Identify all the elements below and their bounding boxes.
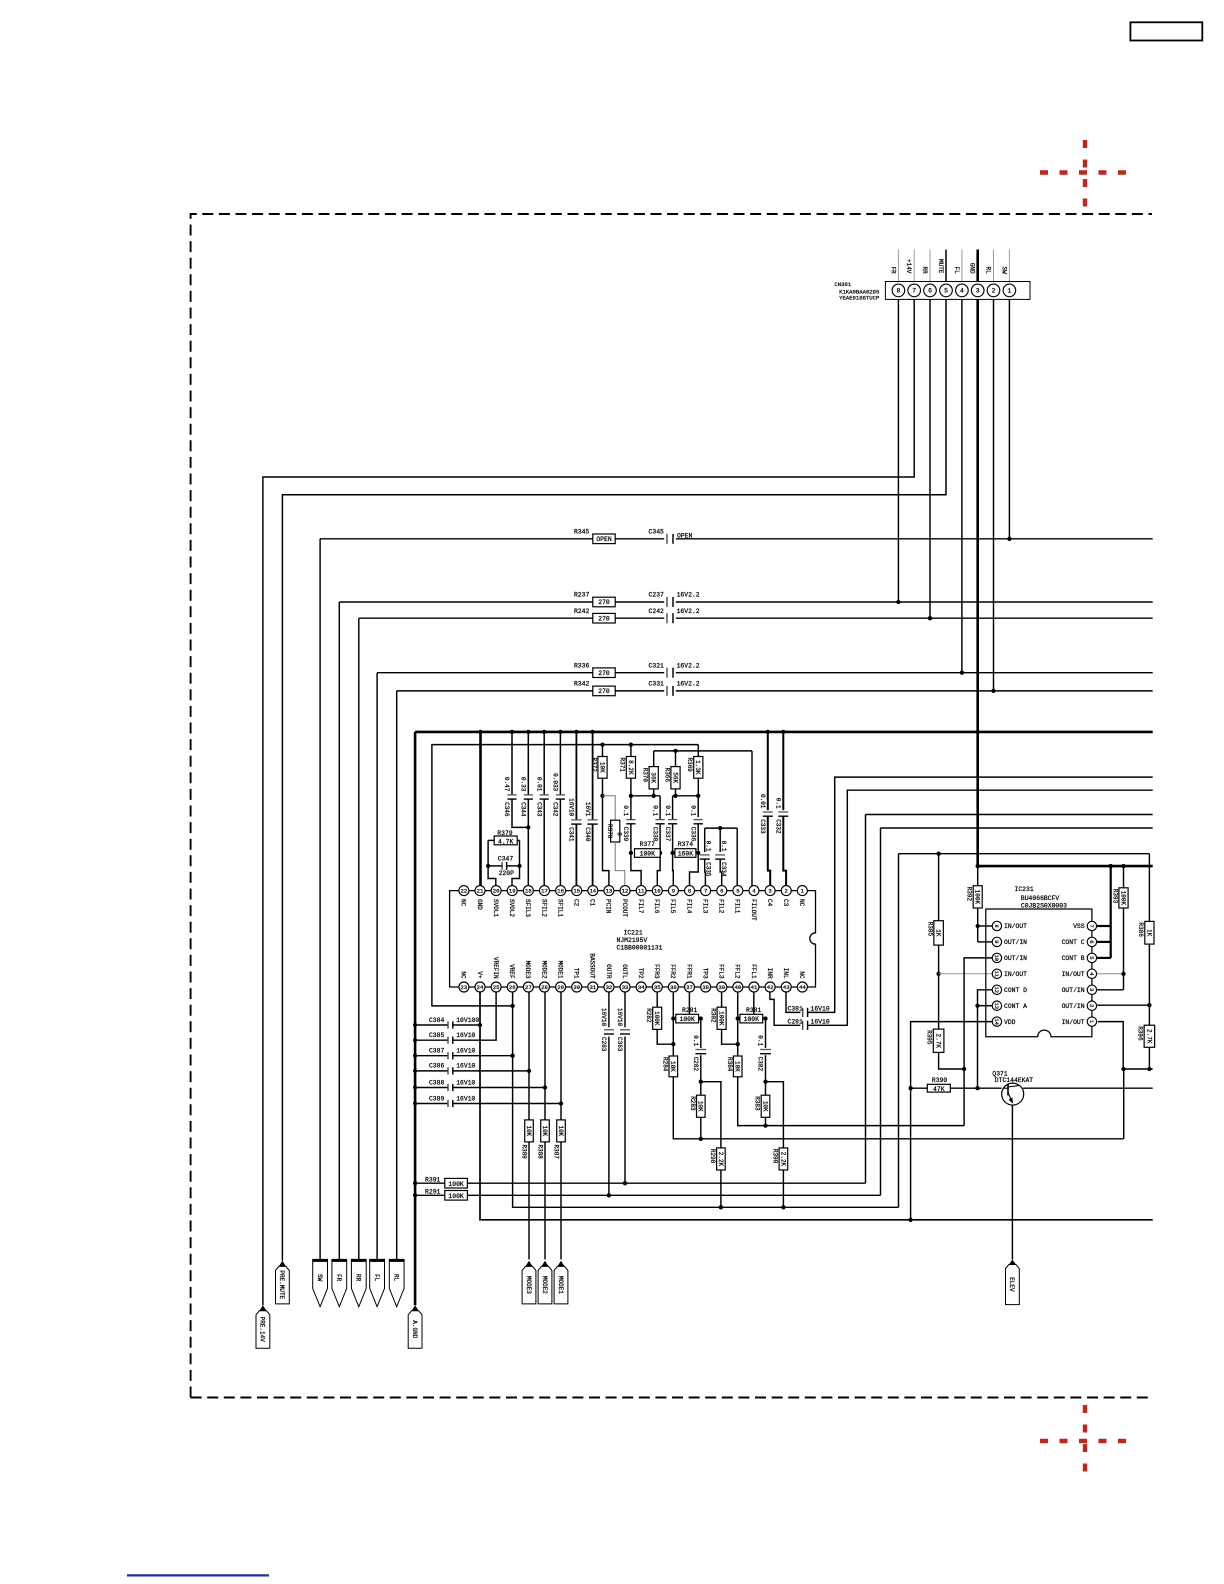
svg-text:R302: R302 <box>710 1008 717 1023</box>
svg-text:C321: C321 <box>649 662 665 669</box>
wire V+ column from IC221 pin24 <box>480 992 1153 1220</box>
svg-text:1: 1 <box>1088 1020 1094 1023</box>
resistor R387 <box>557 1120 566 1142</box>
red registration cross (top) <box>1040 140 1131 211</box>
svg-text:C333: C333 <box>759 819 766 834</box>
wire C339 to IC221 pin11 FIL7 <box>630 796 632 820</box>
svg-text:5: 5 <box>736 888 739 895</box>
wire IC231 pin4 row <box>1097 973 1124 975</box>
wire IC221 pin41 stub <box>753 992 755 1014</box>
svg-text:MUTE: MUTE <box>937 259 944 274</box>
svg-text:32: 32 <box>606 984 613 991</box>
wire C384 to V+ column <box>453 1024 480 1026</box>
resistor R395 <box>933 1029 944 1052</box>
svg-text:10K: 10K <box>669 1061 676 1072</box>
resistor R366 <box>675 751 677 767</box>
svg-text:20: 20 <box>493 888 500 895</box>
svg-text:14: 14 <box>993 1018 999 1024</box>
svg-text:43: 43 <box>783 984 790 991</box>
wire C386 to MODE3 column <box>453 1070 529 1072</box>
svg-text:1K: 1K <box>935 929 942 937</box>
svg-text:24: 24 <box>477 984 484 991</box>
svg-text:FIL5: FIL5 <box>669 899 676 914</box>
svg-text:CN361: CN361 <box>834 281 851 288</box>
svg-text:R386: R386 <box>1137 922 1144 937</box>
svg-text:C342: C342 <box>552 802 559 817</box>
svg-text:MODE1: MODE1 <box>556 961 563 979</box>
wire C333 column <box>767 732 769 810</box>
svg-text:25: 25 <box>493 984 500 991</box>
svg-text:RL: RL <box>985 267 992 275</box>
svg-text:NC: NC <box>460 971 467 979</box>
svg-text:NC: NC <box>798 899 805 907</box>
capacitor C242 <box>666 613 668 623</box>
svg-text:FFL3: FFL3 <box>718 964 725 979</box>
svg-text:10V100: 10V100 <box>456 1017 479 1024</box>
svg-text:NC: NC <box>798 971 805 979</box>
svg-text:16V10: 16V10 <box>811 1005 830 1012</box>
bilateral switch IC231 right pins 7..1 <box>1087 921 1096 930</box>
svg-text:16: 16 <box>557 888 564 895</box>
svg-text:C389: C389 <box>429 1095 445 1102</box>
junction V+ row / R390 column <box>908 1218 912 1222</box>
svg-text:6: 6 <box>720 888 723 895</box>
wire GND from CN361 pin3 <box>976 299 979 866</box>
resistor R385 <box>938 854 940 921</box>
svg-text:270: 270 <box>598 615 610 622</box>
svg-text:270: 270 <box>598 670 610 677</box>
capacitor C283 <box>608 992 610 1027</box>
svg-text:C336: C336 <box>689 827 696 842</box>
junction R391/GND trunk <box>413 1181 417 1185</box>
svg-text:SVOL2: SVOL2 <box>508 899 515 917</box>
svg-text:21: 21 <box>477 888 484 895</box>
junction C363/R391 row <box>623 1181 627 1185</box>
svg-text:R385: R385 <box>926 922 933 937</box>
svg-text:C345: C345 <box>649 529 665 536</box>
svg-text:2.2K: 2.2K <box>717 1152 724 1167</box>
svg-text:PRE.MUTE: PRE.MUTE <box>278 1270 285 1299</box>
svg-text:2: 2 <box>1088 1004 1094 1007</box>
net arrow MODE3 <box>522 1266 536 1304</box>
svg-text:VSS: VSS <box>1073 923 1085 930</box>
wire FIL3/FIL2/FIL1 bracket <box>705 827 738 829</box>
svg-text:FL: FL <box>953 267 960 275</box>
wire MUTE from CN361 pin5 <box>282 299 946 1260</box>
svg-text:R283: R283 <box>689 1096 696 1111</box>
svg-text:INL: INL <box>782 968 789 979</box>
capacitor C332 <box>778 811 788 813</box>
svg-text:INR: INR <box>766 968 773 979</box>
svg-text:C2: C2 <box>573 899 580 907</box>
svg-text:23: 23 <box>461 984 468 991</box>
svg-text:C282: C282 <box>692 1057 699 1072</box>
resistor R284 <box>669 1056 678 1077</box>
resistor R383 <box>761 1095 770 1117</box>
svg-text:R398: R398 <box>772 1149 779 1164</box>
svg-text:0.033: 0.033 <box>552 773 559 791</box>
junction pin1 drop <box>1121 1067 1125 1071</box>
svg-text:C331: C331 <box>649 681 665 688</box>
svg-text:100K: 100K <box>974 890 981 905</box>
svg-text:C386: C386 <box>429 1063 445 1070</box>
svg-text:MODE3: MODE3 <box>525 1276 532 1294</box>
svg-text:RL: RL <box>393 1274 400 1282</box>
wire C342 column <box>559 732 561 795</box>
junction R283 bottom <box>699 1137 703 1141</box>
svg-text:30: 30 <box>573 984 580 991</box>
dashed page border <box>191 214 1152 1398</box>
svg-text:10K: 10K <box>525 1125 532 1136</box>
wire RR from CN361 pin6 <box>929 299 931 618</box>
wire R291 riser to row 828 <box>880 828 882 1195</box>
wire SW from CN361 pin1 <box>1008 299 1010 538</box>
svg-text:MODE2: MODE2 <box>541 1276 548 1294</box>
svg-text:C344: C344 <box>520 802 527 817</box>
svg-text:C338: C338 <box>651 827 658 842</box>
svg-text:16V10: 16V10 <box>456 1095 475 1102</box>
connector CN361 stub lines <box>897 250 899 282</box>
svg-text:6: 6 <box>928 288 932 295</box>
svg-text:FFR1: FFR1 <box>685 964 692 979</box>
svg-text:FR: FR <box>889 267 896 275</box>
wire IC231 pin14 VDD row <box>911 1022 993 1220</box>
wire GND bus <box>415 731 1153 734</box>
junction OUT/IN node <box>962 1067 966 1071</box>
svg-text:OUT/IN: OUT/IN <box>1004 955 1027 962</box>
svg-text:0.01: 0.01 <box>535 777 542 792</box>
svg-text:44: 44 <box>799 984 806 991</box>
op-amp IC221 bottom pins 23..44 <box>459 982 469 992</box>
svg-text:CONT C: CONT C <box>1062 939 1085 946</box>
svg-text:C237: C237 <box>649 592 665 599</box>
wire FFL2 column from IC221 pin40 <box>737 992 739 1056</box>
junction R377 left <box>629 851 633 855</box>
svg-text:NC: NC <box>460 899 467 907</box>
svg-text:160K: 160K <box>678 851 694 858</box>
svg-text:0.01: 0.01 <box>759 794 766 809</box>
svg-text:0.1: 0.1 <box>664 805 671 816</box>
svg-text:OPEN: OPEN <box>677 532 693 539</box>
resistor R377 <box>635 849 661 858</box>
wire MODE column R389 <box>528 992 530 1120</box>
wire C335 to IC221 pin7 FIL3 <box>704 859 707 885</box>
svg-text:R393: R393 <box>1111 889 1118 904</box>
svg-text:37: 37 <box>686 984 693 991</box>
svg-text:C242: C242 <box>649 608 665 615</box>
wire FFL2 column lower <box>738 1077 964 1126</box>
svg-text:270: 270 <box>598 599 610 606</box>
svg-text:9: 9 <box>672 888 675 895</box>
svg-text:FILOUT: FILOUT <box>750 899 757 921</box>
svg-text:100K: 100K <box>653 1011 660 1026</box>
svg-text:ELEV: ELEV <box>1008 1277 1015 1292</box>
svg-text:R282: R282 <box>645 1008 652 1023</box>
svg-text:FL: FL <box>373 1274 380 1282</box>
svg-text:OUT/IN: OUT/IN <box>1062 1003 1085 1010</box>
wire OUT/IN row to border <box>1124 1068 1153 1070</box>
wire IC231 pin12 CONT D <box>978 990 993 1088</box>
svg-text:IN/OUT: IN/OUT <box>1004 923 1027 930</box>
svg-text:TP3: TP3 <box>701 968 708 979</box>
svg-text:C347: C347 <box>498 856 514 863</box>
capacitor C333 <box>763 811 773 813</box>
junction R377 right <box>658 851 662 855</box>
wire row R237 <box>339 601 664 603</box>
net arrow ELEV <box>1006 1265 1020 1305</box>
net arrow RR <box>351 1259 366 1306</box>
wire IC231 pin3 row <box>1097 989 1124 991</box>
wire R379/C347 left leg to pin20 <box>488 840 496 885</box>
svg-text:33: 33 <box>622 984 629 991</box>
wire R281 to C282 column <box>699 1018 701 1020</box>
svg-text:C388: C388 <box>429 1079 445 1086</box>
svg-text:16V10: 16V10 <box>600 1008 607 1026</box>
junction R372/PCIN <box>600 794 604 798</box>
svg-text:R370: R370 <box>642 768 649 783</box>
resistor R237 <box>593 597 615 607</box>
wire FILOUT bus <box>654 750 752 752</box>
junction C347 <box>486 864 490 868</box>
svg-text:SFIL3: SFIL3 <box>524 899 531 917</box>
svg-text:7: 7 <box>912 288 916 295</box>
wire R391 riser to row 814 <box>865 815 867 1184</box>
svg-text:C281: C281 <box>788 1018 804 1025</box>
junction R298 bottom <box>719 1205 723 1209</box>
wire R378 to IC221 pin12 PCOUT <box>615 842 625 886</box>
svg-text:IC221: IC221 <box>624 930 643 937</box>
junction GND bus <box>478 730 482 734</box>
bilateral switch IC231 left pins 8..14 <box>992 921 1001 930</box>
svg-text:270: 270 <box>598 688 610 695</box>
svg-text:R390: R390 <box>932 1077 948 1084</box>
wire C389 to MODE1 column <box>453 1103 561 1105</box>
svg-text:FIL2: FIL2 <box>718 899 725 914</box>
capacitor C237 <box>666 597 668 607</box>
svg-text:C1BB00001131: C1BB00001131 <box>617 945 663 952</box>
svg-text:C341: C341 <box>568 827 575 842</box>
svg-text:CONT D: CONT D <box>1004 987 1027 994</box>
junction R281 right <box>699 1016 703 1020</box>
net arrow FR <box>332 1259 347 1306</box>
resistor R281 <box>676 1014 699 1023</box>
resistor R384 <box>733 1056 742 1077</box>
wire C332 column <box>782 732 784 810</box>
junction GND trunk <box>413 1054 417 1058</box>
svg-text:16V10: 16V10 <box>616 1008 623 1026</box>
svg-text:10K: 10K <box>557 1125 564 1136</box>
capacitor C347 <box>501 862 503 870</box>
svg-text:8: 8 <box>688 888 691 895</box>
svg-text:R377: R377 <box>640 841 656 848</box>
wire row R336 <box>377 672 664 674</box>
junction GND trunk <box>413 1023 417 1027</box>
resistor R283 <box>697 1095 706 1117</box>
svg-text:OUT/IN: OUT/IN <box>1004 939 1027 946</box>
wire C340 column <box>592 732 594 820</box>
svg-text:3: 3 <box>768 888 771 895</box>
capacitor C341 <box>571 819 581 821</box>
wire FFR2 column from IC221 pin36 <box>672 992 674 1056</box>
capacitor C282 <box>700 1019 702 1049</box>
svg-text:R284: R284 <box>661 1057 668 1072</box>
wire MODE column R388 <box>544 992 546 1120</box>
net arrow PRE.MUTE <box>276 1266 290 1304</box>
svg-text:28: 28 <box>541 984 548 991</box>
wire IC231 pin6 CONT C stub <box>1097 941 1111 943</box>
wire IC231 pin7 VSS stub <box>1097 925 1111 927</box>
svg-text:16V2.2: 16V2.2 <box>677 662 700 669</box>
svg-text:16V10: 16V10 <box>456 1063 475 1070</box>
wire GND thick bus <box>978 865 1153 868</box>
svg-text:R392: R392 <box>966 887 973 902</box>
svg-text:2: 2 <box>992 288 996 295</box>
svg-text:100K: 100K <box>1119 891 1126 906</box>
resistor R379 <box>494 836 517 845</box>
svg-text:5: 5 <box>944 288 948 295</box>
wire IC221 pin37 stub <box>688 992 690 1014</box>
junction IC231 pin8 <box>976 924 980 928</box>
svg-text:10K: 10K <box>697 1101 704 1112</box>
svg-text:56K: 56K <box>671 772 678 783</box>
svg-text:1.3K: 1.3K <box>694 760 701 775</box>
junction R398 bottom <box>781 1205 785 1209</box>
junction cap/R387 <box>559 1101 563 1105</box>
svg-text:36K: 36K <box>650 772 657 783</box>
svg-text:FIL6: FIL6 <box>653 899 660 914</box>
svg-text:C363: C363 <box>616 1037 623 1052</box>
svg-text:6: 6 <box>1088 940 1094 943</box>
wire FR drop to arrow <box>338 602 340 1259</box>
junction <box>896 600 900 604</box>
junction GND bus/pin3 <box>976 864 980 868</box>
capacitor C389 <box>415 1103 448 1105</box>
junction FIL4 node <box>673 794 677 798</box>
svg-text:R298: R298 <box>709 1149 716 1164</box>
capacitor C346 <box>507 794 516 796</box>
junction cap/R389 <box>527 1069 531 1073</box>
svg-text:R372: R372 <box>590 758 597 773</box>
svg-text:MODE3: MODE3 <box>524 961 531 979</box>
svg-text:16V1: 16V1 <box>584 802 591 817</box>
net arrow PRE.14V <box>256 1311 270 1349</box>
junction R282/FFR2 <box>671 1042 675 1046</box>
svg-text:27: 27 <box>525 984 532 991</box>
svg-text:C0JB2S0X0003: C0JB2S0X0003 <box>1021 902 1067 909</box>
svg-text:16V10: 16V10 <box>456 1079 475 1086</box>
svg-text:MODE2: MODE2 <box>540 961 547 979</box>
junction GND trunk <box>413 1038 417 1042</box>
capacitor C381 <box>802 1008 804 1017</box>
junction SW <box>1007 537 1011 541</box>
capacitor C345 (OPEN) <box>666 534 668 544</box>
junction VREF bus tap <box>510 1004 514 1008</box>
junction GND trunk <box>413 1085 417 1089</box>
svg-text:8.2K: 8.2K <box>627 760 634 775</box>
svg-text:0.1: 0.1 <box>689 805 696 816</box>
wire PCIN to IC221 pin13 <box>603 796 609 886</box>
resistor R389 <box>525 1120 534 1142</box>
svg-text:RR: RR <box>355 1274 362 1282</box>
svg-text:47K: 47K <box>933 1086 945 1093</box>
wire +14V from CN361 pin7 <box>263 299 914 1305</box>
junction R381 right <box>763 1016 767 1020</box>
svg-text:CONT A: CONT A <box>1004 1003 1027 1010</box>
svg-text:NJM2195V: NJM2195V <box>617 937 648 944</box>
svg-text:4.7K: 4.7K <box>498 838 514 845</box>
svg-text:13: 13 <box>993 1002 999 1008</box>
junction C283/R291 row <box>607 1193 611 1197</box>
wire C341 column <box>575 732 577 820</box>
op-amp IC221 NJM2195V body <box>450 891 816 987</box>
svg-text:0.1: 0.1 <box>720 841 727 852</box>
wire C336 to IC221 pin8 FIL4 <box>690 824 699 886</box>
svg-text:2.7K: 2.7K <box>935 1034 942 1049</box>
svg-text:C4: C4 <box>766 899 773 907</box>
svg-text:R396: R396 <box>1137 1026 1144 1041</box>
svg-text:YEAE0108TUCP: YEAE0108TUCP <box>839 295 880 302</box>
svg-text:4: 4 <box>960 288 964 295</box>
wire VREF column from IC221 pin26 <box>513 992 899 1207</box>
wire SW drop to arrow <box>319 539 321 1260</box>
wire SW row <box>320 538 664 540</box>
wire IC231 pin13 CONT A row <box>978 1005 993 1007</box>
svg-text:0.1: 0.1 <box>775 798 782 809</box>
junction C346/C344 <box>526 825 530 829</box>
junction cap/R388 <box>543 1085 547 1089</box>
wire R383 to FFL row <box>765 1117 767 1125</box>
svg-text:SFIL1: SFIL1 <box>556 899 563 917</box>
wire row to border (R391 net) <box>866 814 1153 816</box>
svg-text:13: 13 <box>606 888 613 895</box>
wire FILOUT to IC221 pin4 <box>751 751 753 886</box>
svg-text:R342: R342 <box>574 681 590 688</box>
svg-text:R371: R371 <box>619 758 626 773</box>
svg-text:PCIN: PCIN <box>605 899 612 914</box>
wire R381 to C382 column <box>763 1018 766 1020</box>
svg-text:V+: V+ <box>476 971 483 979</box>
junction <box>960 671 964 675</box>
svg-text:1: 1 <box>1007 288 1011 295</box>
svg-text:R366: R366 <box>663 768 670 783</box>
svg-text:10: 10 <box>993 955 999 961</box>
svg-text:5: 5 <box>1088 956 1094 959</box>
svg-text:FFR3: FFR3 <box>653 964 660 979</box>
wire R283 to FFR row <box>700 1117 702 1139</box>
svg-text:0.1: 0.1 <box>622 805 629 816</box>
svg-text:29: 29 <box>557 984 564 991</box>
wire IC231 pin2 row <box>1097 1004 1150 1006</box>
junction R386/pin2 <box>1147 1003 1151 1007</box>
svg-text:R383: R383 <box>754 1096 761 1111</box>
svg-text:DTC144EKAT: DTC144EKAT <box>995 1077 1034 1084</box>
svg-text:C1: C1 <box>589 899 596 907</box>
svg-text:10K: 10K <box>541 1125 548 1136</box>
wire R379/C347 right leg to pin19 <box>512 840 520 885</box>
capacitor C321 <box>666 668 668 678</box>
svg-text:A.GND: A.GND <box>411 1320 418 1338</box>
svg-text:15: 15 <box>573 888 580 895</box>
bilateral switch IC231 BU4066BCFV body <box>986 909 1092 1037</box>
svg-text:R345: R345 <box>574 528 590 535</box>
svg-text:8: 8 <box>993 924 999 927</box>
svg-text:FR: FR <box>335 1274 342 1282</box>
wire C343 column <box>543 732 545 795</box>
svg-text:BASSOUT: BASSOUT <box>589 953 596 979</box>
svg-text:R389: R389 <box>521 1145 528 1160</box>
svg-text:R384: R384 <box>726 1057 733 1072</box>
resistor R345 (OPEN) <box>593 534 615 544</box>
